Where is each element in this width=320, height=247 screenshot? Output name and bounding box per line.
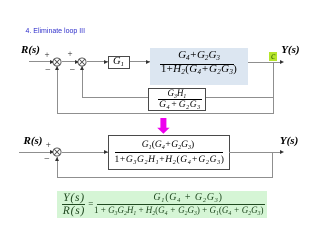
wire outer feedback up	[57, 66, 58, 113]
node c highlight	[269, 52, 277, 61]
S2 plus sign	[68, 50, 73, 59]
title	[26, 28, 86, 35]
summing junction S3	[52, 147, 62, 157]
formula numerator	[104, 193, 272, 203]
node Y(s) top	[281, 45, 299, 56]
block T numerator	[150, 50, 248, 61]
wire inner feedback right	[206, 97, 274, 98]
wire W to output	[229, 152, 281, 153]
wire inner feedback left	[82, 97, 148, 98]
formula main bar	[97, 204, 265, 205]
wire bottom feedback horizontal	[57, 177, 273, 178]
S3 plus sign	[46, 141, 51, 150]
node R(s) bottom	[24, 136, 43, 147]
wire S1 to S2	[62, 61, 78, 62]
block H numerator	[148, 89, 205, 98]
S3 minus sign	[44, 155, 50, 165]
block W numerator	[108, 141, 228, 151]
formula denominator	[94, 206, 263, 215]
wire bottom feedback up	[57, 157, 58, 178]
wire inner feedback up	[82, 66, 83, 97]
node R(s) top	[21, 45, 40, 56]
block W fraction bar	[115, 152, 224, 153]
formula box (green)	[57, 191, 267, 218]
node Y(s) bottom	[280, 136, 298, 147]
block G1	[108, 56, 130, 69]
wire S3 to block W	[62, 152, 108, 153]
wire input to S3	[19, 152, 53, 153]
wire G1 to block T	[130, 61, 150, 62]
block T fraction bar	[160, 64, 234, 65]
wire S2 to G1	[87, 61, 108, 62]
wire T to output	[248, 62, 282, 63]
S1 plus sign	[45, 51, 50, 60]
block H fraction bar	[158, 99, 202, 100]
wire bottom feedback down	[272, 152, 273, 178]
transition arrow magenta	[157, 118, 170, 134]
summing junction S2	[77, 57, 87, 67]
wire input to S1	[29, 61, 53, 62]
formula equals	[88, 200, 93, 209]
formula small bar	[62, 204, 86, 205]
block W denominator	[110, 156, 230, 166]
block H feedback	[148, 88, 206, 111]
formula Y(s) numerator	[62, 193, 87, 205]
wire pickoff vertical	[273, 62, 274, 114]
block H denominator	[151, 101, 208, 111]
summing junction S1	[52, 57, 62, 67]
block T transfer function (blue)	[150, 48, 248, 85]
S1 minus sign	[45, 66, 51, 76]
formula R(s) denominator	[62, 206, 87, 218]
S2 minus sign	[70, 66, 76, 76]
block T denominator	[150, 64, 248, 75]
wire outer feedback	[57, 113, 274, 114]
block W closed loop	[108, 135, 230, 170]
